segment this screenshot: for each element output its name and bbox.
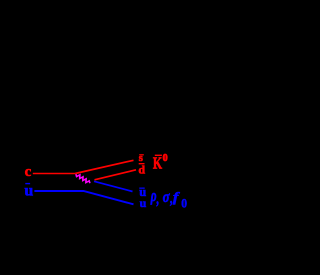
svg-text:f: f [173,190,181,205]
svg-text:u: u [140,196,147,210]
svg-text:K: K [153,155,163,174]
svg-text:ρ: ρ [150,187,157,206]
svg-text:0: 0 [181,196,187,210]
svg-text:σ: σ [163,189,170,206]
svg-text:c: c [25,164,32,180]
svg-text:0: 0 [163,153,168,164]
svg-text:u: u [24,182,33,199]
svg-text:d: d [138,162,145,176]
svg-text:,: , [156,190,160,207]
